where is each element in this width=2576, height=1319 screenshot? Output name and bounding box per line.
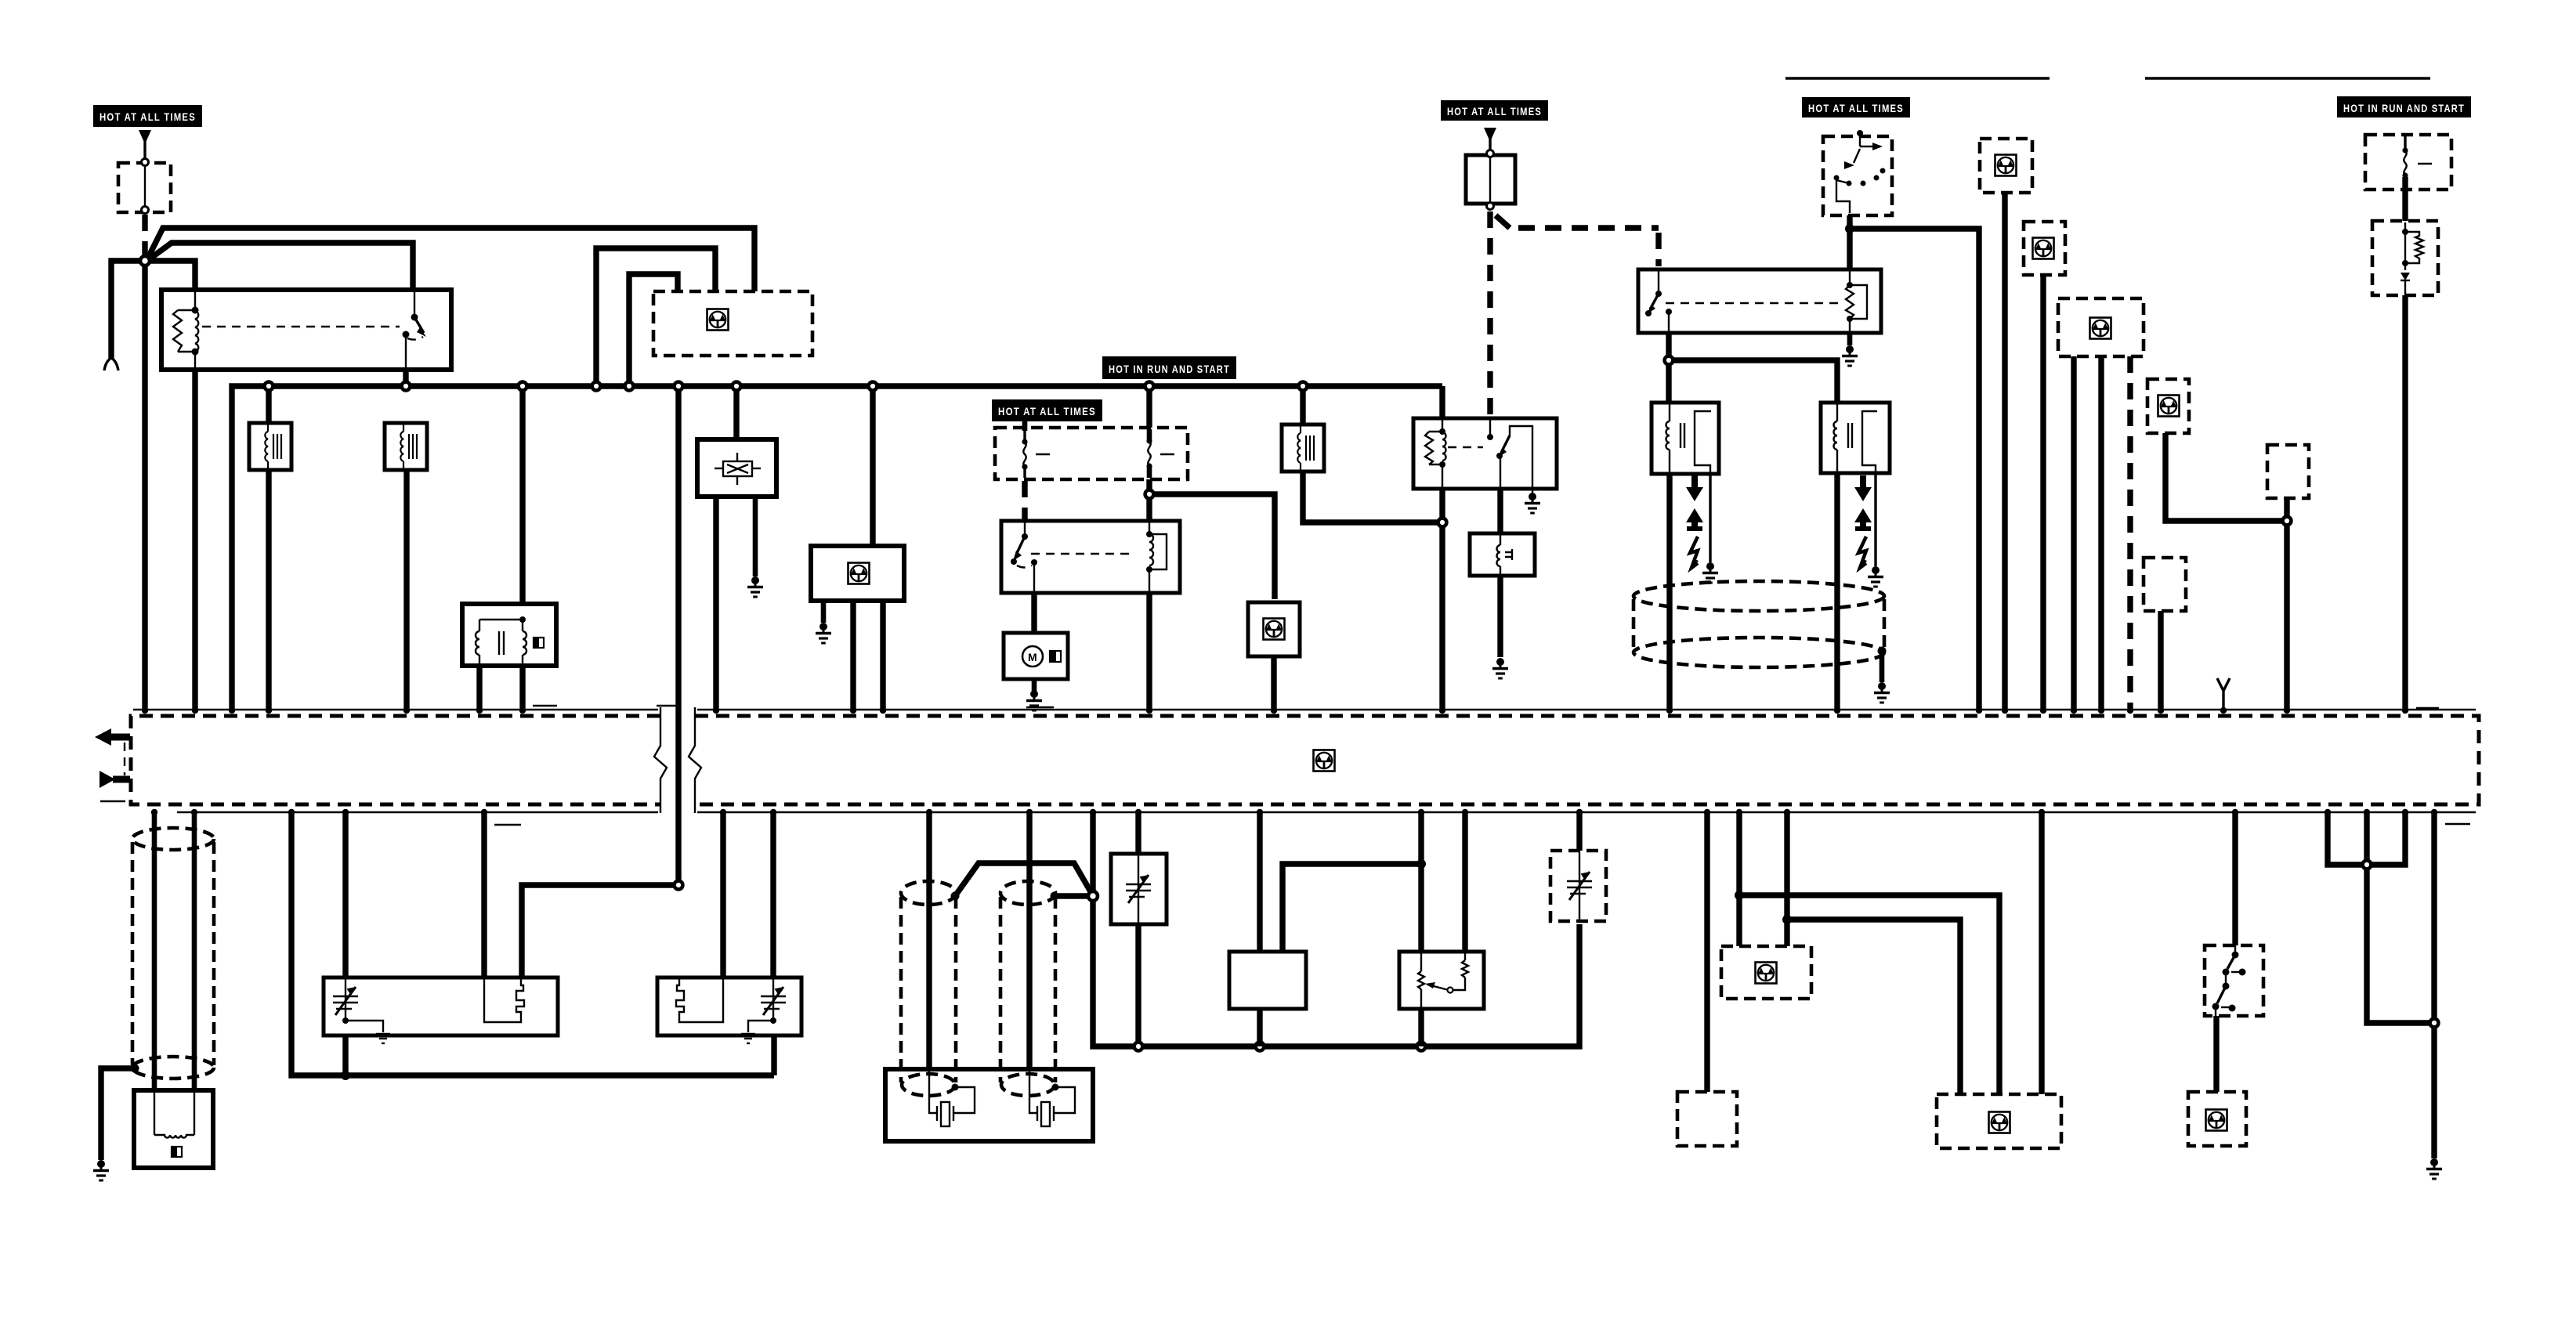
wire relay3 switch to coil box F xyxy=(1497,489,1503,536)
relay R1 coil xyxy=(173,290,199,370)
hook terminal xyxy=(104,358,118,370)
wire strip to circle box S pin1 xyxy=(1736,812,1742,946)
wire strip to box T pin3 xyxy=(2039,812,2044,1094)
node xyxy=(1088,891,1098,901)
wire coil H primary to strip xyxy=(1834,473,1840,709)
svg-text:HOT AT ALL TIMES: HOT AT ALL TIMES xyxy=(998,405,1096,417)
wire strip through to lower link xyxy=(2367,812,2434,1023)
fuse F1 (dashed box) xyxy=(118,159,171,214)
wire strip through shield junction to rail xyxy=(1093,812,1579,1046)
circle box S (dashed) xyxy=(1721,946,1811,999)
wire relay4 out to coil G xyxy=(1666,333,1671,406)
coil box (sensor coil) at 590,771 xyxy=(462,604,556,666)
relay R1 control dashed line xyxy=(202,326,400,327)
wire strip right group pin1 xyxy=(2328,812,2405,865)
label HOT AT ALL TIMES (top right) xyxy=(1802,97,1910,117)
strip top connection dots xyxy=(142,707,2408,714)
spark gap G xyxy=(1686,475,1703,569)
wire strip to sensor box N xyxy=(1135,812,1141,1046)
wire junction to coil H xyxy=(1669,360,1837,406)
ground (inside module J) xyxy=(741,1034,755,1043)
wire C6 to strip xyxy=(2158,611,2163,709)
overbar left xyxy=(1785,77,2050,79)
wire X-box to ground xyxy=(753,497,758,576)
O2 shield bridge 2 xyxy=(1055,893,1091,898)
relay R3 coil xyxy=(1425,418,1446,489)
wire xyxy=(1489,139,1491,154)
wire xyxy=(143,141,146,161)
label HOT IN RUN AND START (middle) xyxy=(1102,356,1236,379)
wire strip to circle box S pin2 xyxy=(1784,812,1789,946)
ground xyxy=(1868,566,1883,587)
connector strip right segment xyxy=(695,716,2479,804)
ground xyxy=(2426,1158,2442,1179)
nodes xyxy=(1735,891,1744,900)
relay R2 coil xyxy=(1146,521,1167,593)
wire C3 to strip xyxy=(2071,356,2076,709)
fuse box C (dashed) xyxy=(995,421,1188,479)
wire bus to coil box S2 to strip xyxy=(403,423,409,709)
wire left stub with hook xyxy=(111,261,145,359)
circle box T (dashed) xyxy=(1937,1094,2061,1148)
wire dashed fuse2 to relay3 switch xyxy=(1487,211,1492,416)
connector circle box C4 (dashed) xyxy=(2147,379,2189,433)
ground xyxy=(816,623,831,643)
wire relay1 switch to bus xyxy=(403,367,408,386)
wire module J to module I comb xyxy=(522,885,678,979)
node xyxy=(1145,490,1154,499)
ground xyxy=(747,576,763,597)
O2 sensor 2 shield (dashed cylinder) xyxy=(1000,881,1055,1082)
wire strip to relay P coil xyxy=(1462,812,1467,952)
wire ign switch output junction xyxy=(1847,215,1852,288)
wire bus to X-box xyxy=(733,386,739,443)
wire shield to ground xyxy=(1880,651,1885,682)
circle box D xyxy=(1248,602,1300,656)
wire fuse3 to resistor xyxy=(2402,177,2408,227)
module I box xyxy=(324,978,558,1035)
node xyxy=(2283,517,2292,526)
feed arrow xyxy=(1484,128,1496,142)
wire relay3 aux to ground xyxy=(1532,489,1533,493)
connector box R (dashed empty) xyxy=(1677,1092,1737,1146)
stub terminal fork xyxy=(2217,678,2230,709)
ignition switch (dashed box) xyxy=(1823,130,1892,215)
wire C3 to strip xyxy=(2098,356,2104,709)
switch box U (dashed) xyxy=(2205,945,2263,1016)
fusible link E xyxy=(1282,425,1324,472)
relay R3 control dashed xyxy=(1448,446,1483,448)
fuse F2 (solid box) xyxy=(1466,150,1515,210)
return rail nodes xyxy=(1134,1043,1143,1051)
strip bottom connection dots xyxy=(151,809,2437,815)
wire strip to ground (far right) xyxy=(2431,812,2437,1158)
node xyxy=(341,1071,350,1080)
overbar right xyxy=(2145,77,2430,79)
ignition coil H xyxy=(1821,403,1890,473)
wire bus down to coil box (590,771) xyxy=(519,386,525,627)
wire ign switch to long feed xyxy=(1850,229,1979,709)
wire fan to relay switch xyxy=(148,243,413,293)
ground xyxy=(93,1160,109,1180)
relay R1 switch xyxy=(403,290,427,370)
ground xyxy=(1492,658,1508,678)
wire junction to circle box D xyxy=(1149,494,1275,599)
wire shield drain to ground xyxy=(101,1068,135,1160)
wire fan to relay coil xyxy=(145,261,195,293)
wire bus to fuse/relay2 column xyxy=(1146,386,1152,431)
connector box A (dashed) with symbol xyxy=(653,291,812,356)
wire dashed fuse2 to relay4 xyxy=(1496,215,1510,228)
ground xyxy=(1874,682,1890,703)
ground xyxy=(1842,345,1858,366)
relay R1 box xyxy=(161,290,451,370)
wire strip to EGR return corner xyxy=(291,812,774,1075)
spark gap H xyxy=(1854,475,1872,569)
ballast resistor (dashed box) xyxy=(2372,221,2438,295)
wire bus riser to box A pin2 xyxy=(596,248,715,386)
wire S junction2 to box T xyxy=(1787,920,1960,1094)
relay R3 switch xyxy=(1487,418,1532,489)
connector box C6 (small dashed) xyxy=(2144,558,2186,611)
wire coil box to strip left xyxy=(476,666,482,709)
relay P box xyxy=(1399,952,1484,1009)
O2 shield bridge 1 xyxy=(955,863,1091,896)
wire relay P to rail xyxy=(1418,1009,1424,1046)
distributor shield (dashed cylinder) xyxy=(1634,581,1884,667)
wire C4 to junction xyxy=(2165,433,2287,521)
wire fan to bus right xyxy=(148,228,754,291)
wire D to strip xyxy=(1271,656,1276,709)
connector circle box C1 (dashed) xyxy=(1980,139,2032,193)
wire C5 through junction to strip xyxy=(2284,498,2289,709)
wire C1 to strip xyxy=(2002,193,2007,709)
wire strip through to relay P xyxy=(1418,812,1424,952)
node bus junctions xyxy=(265,382,273,391)
wire relay1 coil to strip xyxy=(192,367,197,709)
box O (empty) xyxy=(1229,952,1306,1009)
wire coil G secondary to ground xyxy=(1709,474,1711,562)
svg-text:HOT IN RUN AND START: HOT IN RUN AND START xyxy=(1109,363,1230,375)
strip inner thin line top xyxy=(133,709,658,710)
sensor box Q (dashed) with var-res xyxy=(1550,851,1606,921)
wire M to ground xyxy=(1032,679,1037,691)
wire module I out to return rail xyxy=(342,1035,348,1075)
wire E to relay3 junction xyxy=(1303,472,1442,522)
shielded cable (dashed cylinder) xyxy=(132,828,214,1079)
wire strip to module J comb2 xyxy=(720,812,725,979)
ground (inside module I) xyxy=(376,1034,390,1043)
node xyxy=(1665,356,1673,365)
relay R4 switch xyxy=(1645,269,1672,333)
relay R4 box xyxy=(1638,269,1881,333)
wire strip to module I var-res xyxy=(342,812,348,979)
relay R3 box xyxy=(1413,418,1557,489)
node xyxy=(1416,859,1426,869)
wire fuse C right down to relay2 coil xyxy=(1146,479,1152,523)
wire B to strip xyxy=(880,601,885,709)
wire main vertical from junction to connector strip xyxy=(142,261,147,709)
wire box O to rail xyxy=(1257,1009,1262,1046)
circle box V (dashed) xyxy=(2188,1092,2246,1146)
circle box B xyxy=(811,546,904,601)
solenoid X-box xyxy=(697,439,776,497)
wire bus horizontal xyxy=(232,386,1442,709)
connector box C5 (dashed) xyxy=(2267,445,2309,498)
wire bus to fusible link E xyxy=(1300,386,1305,427)
relay R4 control dashed xyxy=(1666,302,1843,304)
wire module J out to return rail xyxy=(771,1035,776,1075)
wire C3 dashed to strip xyxy=(2127,356,2133,709)
wire resistor to strip xyxy=(2402,295,2408,709)
wire coil box to strip right xyxy=(519,666,525,709)
wire B to ground xyxy=(821,601,827,623)
wire box O pin2 riser xyxy=(1283,864,1421,952)
motor box M xyxy=(1004,633,1068,679)
wire label ticks xyxy=(533,705,557,706)
connector circle box C3 (dashed) xyxy=(2058,298,2144,356)
svg-text:HOT AT ALL TIMES: HOT AT ALL TIMES xyxy=(99,110,196,123)
exhaust box with O2 sensors xyxy=(885,1069,1093,1141)
node xyxy=(1845,224,1854,233)
label HOT AT ALL TIMES (upper middle) xyxy=(1441,100,1548,121)
wire U to circle box V xyxy=(2213,1016,2219,1092)
fuse F3 (dashed box) xyxy=(2365,135,2451,190)
wire fuse C left to relay2 (dashed) xyxy=(1022,481,1027,519)
coil box F xyxy=(1470,533,1535,576)
strip break mark right xyxy=(689,707,701,813)
wire strip to sensor cable pair xyxy=(192,812,197,1093)
wire F to ground xyxy=(1497,576,1503,657)
label HOT AT ALL TIMES (top left) xyxy=(93,105,202,127)
wire bus to circle box B xyxy=(870,386,875,548)
svg-text:HOT IN RUN AND START: HOT IN RUN AND START xyxy=(2343,102,2465,114)
node pass-through junction xyxy=(675,881,683,890)
strip inner thin line bottom xyxy=(177,811,658,813)
wire strip to O2 sensor 2 xyxy=(1026,812,1032,1071)
ground xyxy=(1702,562,1718,583)
wire coil G primary to strip xyxy=(1666,474,1672,709)
ground xyxy=(1026,690,1042,710)
relay R4 coil xyxy=(1846,269,1867,333)
wire relay2 switch to M-box xyxy=(1031,593,1037,636)
wire strip to box O xyxy=(1257,812,1262,952)
node xyxy=(2430,1019,2439,1028)
sensor box (bottom left) xyxy=(134,1090,213,1168)
wire bus right end down through relay3 xyxy=(1439,386,1445,709)
wire bus riser to box A pin1 xyxy=(629,274,678,386)
svg-text:HOT AT ALL TIMES: HOT AT ALL TIMES xyxy=(1808,102,1904,114)
wire X-box to strip xyxy=(713,497,718,709)
node xyxy=(2363,861,2372,869)
relay R2 box xyxy=(1001,521,1180,593)
wire strip to connector R xyxy=(1704,812,1709,1092)
wire strip to O2 sensor 1 xyxy=(926,812,932,1071)
wire strip to sensor Q xyxy=(1576,812,1582,854)
svg-text:M: M xyxy=(1028,651,1037,663)
svg-text:HOT AT ALL TIMES: HOT AT ALL TIMES xyxy=(1447,105,1542,117)
out arrow (left, pointing away) xyxy=(95,728,130,746)
relay R2 control dashed xyxy=(1031,553,1134,555)
label HOT IN RUN AND START (top right) xyxy=(2337,96,2471,117)
fusible link S1 xyxy=(249,423,291,470)
connector symbol in strip xyxy=(1314,750,1335,772)
ignition coil G xyxy=(1652,403,1719,474)
wire strip to switch box U xyxy=(2232,812,2238,945)
in arrow (left, pointing in) xyxy=(99,771,130,788)
node junction J1 xyxy=(140,256,150,266)
wire bus to coil box S1 to strip xyxy=(266,386,271,709)
label HOT AT ALL TIMES (middle) xyxy=(992,399,1102,421)
wire coil H secondary to ground xyxy=(1874,473,1876,566)
wire S junction to box T xyxy=(1739,895,1999,1094)
module J box xyxy=(657,978,801,1035)
relay R2 switch xyxy=(1011,521,1037,593)
node xyxy=(1438,519,1447,527)
fusible link S2 xyxy=(385,423,427,470)
feed arrow xyxy=(139,130,151,144)
connector strip left segment xyxy=(131,716,660,804)
sensor box N (solid) with var-res xyxy=(1111,854,1167,924)
dashed link between arrows xyxy=(124,743,125,775)
O2 sensor 1 shield (dashed cylinder) xyxy=(901,881,956,1082)
wire strip to module J var-res xyxy=(770,812,776,979)
wire relay2 coil to strip xyxy=(1146,593,1152,709)
wire strip to sensor cable pair xyxy=(152,812,157,1093)
wire strip to module I comb xyxy=(481,812,487,979)
wire B to strip xyxy=(850,601,856,709)
ground xyxy=(1525,493,1540,513)
wire (dashed feed) xyxy=(142,215,147,255)
wire bus through strip gap to module J xyxy=(675,386,681,885)
connector circle box C2 (dashed) xyxy=(2024,222,2065,275)
wire relay4 coil to ground xyxy=(1847,333,1853,345)
strip break mark left xyxy=(654,707,667,813)
wire C2 to strip xyxy=(2040,275,2046,709)
